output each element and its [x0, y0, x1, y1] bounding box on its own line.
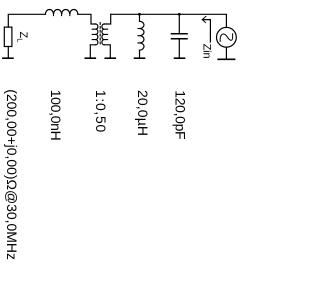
svg-text:(200,00+j0,00)Ω@30,0MHz: (200,00+j0,00)Ω@30,0MHz — [4, 89, 20, 260]
svg-text:1:0,50: 1:0,50 — [93, 90, 109, 133]
svg-text:20,0µH: 20,0µH — [135, 90, 151, 136]
svg-text:Zin: Zin — [201, 44, 213, 59]
svg-text:120,0pF: 120,0pF — [173, 90, 189, 139]
svg-text:100,0nH: 100,0nH — [48, 90, 64, 141]
